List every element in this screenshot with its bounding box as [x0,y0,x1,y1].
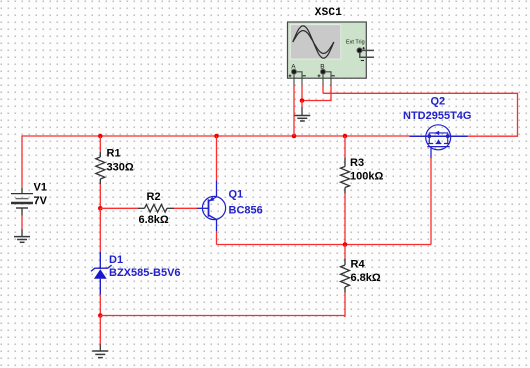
wire Q1 emitter drop [216,136,218,181]
svg-text:Q1: Q1 [229,188,244,200]
label V1 7V [34,182,48,208]
svg-text:330Ω: 330Ω [107,161,134,173]
svg-text:6.8kΩ: 6.8kΩ [351,272,381,284]
wire R4 bottom to bottom rail [344,293,345,317]
instrument label XSC1 [315,7,342,19]
oscilloscope XSC1 [288,22,367,78]
svg-text:R4: R4 [351,258,366,270]
svg-text:Q2: Q2 [431,95,446,107]
resistor R3 [341,158,350,194]
wire bottom rail to R4 [100,315,345,317]
svg-text:V1: V1 [34,182,47,194]
transistor Q2 NTD2955T4G (PMOS) [410,125,468,158]
wire base wire left segment [100,207,138,209]
zener diode D1 BZX585-B5V6 [91,252,112,295]
wire R3 bottom [344,194,346,245]
svg-text:R2: R2 [147,191,161,203]
svg-text:D1: D1 [109,254,123,266]
node B (R1 / R2 / D1 junction) [98,206,103,211]
svg-text:Ext Trig: Ext Trig [346,40,365,46]
wire battery negative to ground [21,216,23,229]
resistor R4 [341,259,350,293]
pin label A [291,64,296,71]
terminal A (with + and -) [289,69,306,86]
node D (D1 / bottom rail / ground) [98,313,103,318]
wire D1 bottom to bottom rail [99,295,101,316]
resistor R2 [138,205,174,213]
svg-text:7V: 7V [34,195,48,207]
svg-text:NTD2955T4G: NTD2955T4G [403,110,471,122]
label R3 100kΩ [350,157,383,183]
svg-text:R1: R1 [107,148,121,160]
wire scope A+ drop to rail [293,86,295,136]
wire Q1 collector drop [216,231,218,245]
wire R4 top [344,245,346,259]
ground (battery) [14,229,30,242]
svg-text:R3: R3 [350,157,364,169]
svg-text:100kΩ: 100kΩ [350,170,383,182]
node F (rail / R3 top) [343,134,348,139]
terminal B (with + and -) [318,69,335,86]
wire ground stem below node H [301,101,303,108]
wire R1 top [99,136,101,152]
svg-text:6.8kΩ: 6.8kΩ [139,214,169,226]
label R1 330Ω [107,148,134,174]
wire R3 top [344,136,346,158]
wire Q2 drain vertical riser [430,158,432,245]
wire D1 top (node B down to zener) [99,208,101,252]
terminal Ext Trig (with + and - stubs) [357,47,374,61]
wire scope A- drop [301,86,303,101]
node E (rail / scope A+) [292,134,297,139]
node A (rail / R1 top) [98,134,103,139]
svg-text:XSC1: XSC1 [315,7,342,19]
svg-text:BC856: BC856 [229,205,263,217]
wire ground stem below node D [99,316,101,345]
label R2 6.8kΩ [139,191,169,226]
svg-text:BZX585-B5V6: BZX585-B5V6 [109,267,181,279]
ground (scope) [294,107,310,121]
pin label B [320,64,324,71]
node H (scope negative / ground) [300,98,305,103]
wire scope B+ drop [322,86,324,93]
ground (D1 / bottom rail) [92,345,108,358]
wire R1 bottom [99,184,101,208]
wire base wire right segment [174,207,197,209]
wire battery positive lead (vertical x=22) [21,135,23,188]
node G (R3 / R4 / Q1-Q2 wire) [343,242,348,247]
label R4 6.8kΩ [351,258,381,284]
transistor Q1 BC856 (PNP) [197,181,226,232]
wire VCC top rail from battery to Q2 gate lead [22,135,410,137]
wire scope B- drop and link to ground node [302,86,331,101]
node C (rail / Q1 emitter) [214,134,219,139]
label D1 BZX585-B5V6 [109,254,181,279]
battery V1 [11,188,33,216]
wire Q2 source lead to top-right corner loop (from scope B) [323,93,518,136]
label Q1 BC856 [229,188,263,216]
resistor R1 [96,152,105,184]
wire Q1 collector to Q2 drain (horizontal y=244.5) [217,244,432,246]
label Q2 NTD2955T4G [403,95,471,122]
pin label Ext Trig [346,40,365,46]
